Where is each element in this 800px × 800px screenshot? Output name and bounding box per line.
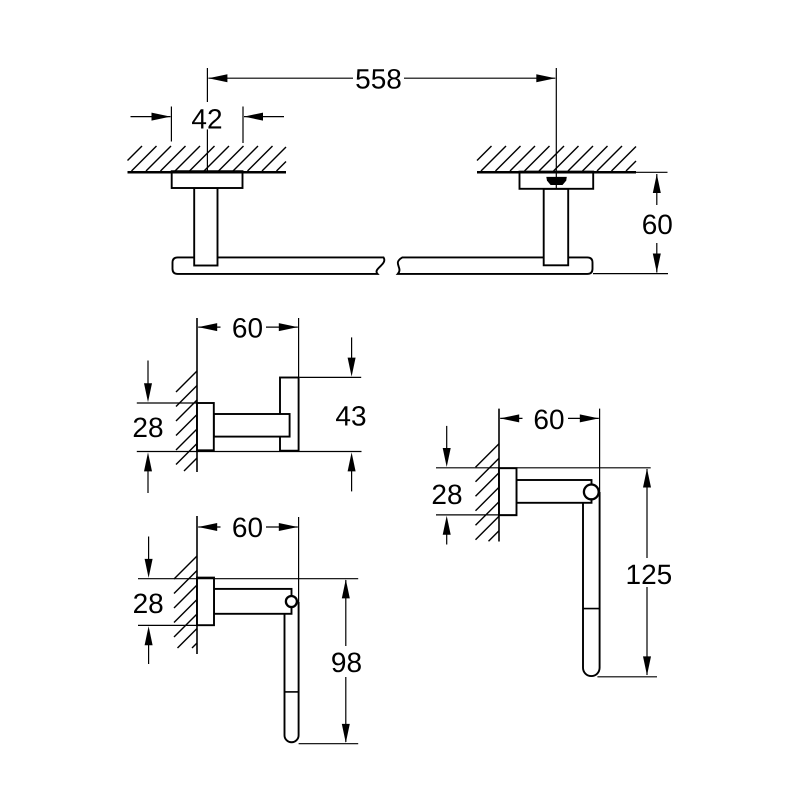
svg-text:60: 60 (533, 404, 564, 435)
dimension 42: left arrowhead (152, 113, 171, 121)
wall surface line (top-left wall) (128, 171, 287, 174)
dimension 60 (hook depth): left arrow tail (198, 326, 220, 328)
wall hatching (top-left wall section) (128, 146, 287, 171)
dimension 28 (spare plate): top arrow tail (446, 426, 448, 450)
spare holder arm (517, 480, 592, 503)
dimension 60 (mount height): wall extension line (636, 171, 668, 173)
dimension 60 (hook depth): right extension line (298, 318, 300, 377)
dimension 125: bottom arrowhead (643, 656, 651, 675)
dimension 42: right arrowhead (244, 113, 263, 121)
dimension 28 (holder plate): top arrowhead (145, 559, 153, 578)
hook vertical front plate (280, 378, 299, 451)
hook arm (214, 414, 290, 437)
svg-text:60: 60 (232, 312, 263, 343)
right wall-mount post (544, 189, 569, 265)
svg-text:43: 43 (335, 401, 366, 432)
dimension 60 (hook depth): left arrowhead (198, 323, 217, 331)
dimension 28 (holder plate): bottom extension line (138, 624, 214, 626)
svg-text:28: 28 (132, 412, 163, 443)
svg-text:60: 60 (642, 209, 673, 240)
dimension 558: dimension line right part (404, 77, 555, 79)
dimension 98: bottom arrowhead (342, 724, 350, 743)
svg-text:42: 42 (191, 104, 222, 135)
dimension 42: right extension line (242, 107, 244, 144)
wall face line (spare holder wall) (498, 409, 500, 542)
dimension 60 (spare depth): right arrowhead (580, 414, 599, 422)
dimension 60 (spare depth): right arrow tail (568, 417, 599, 419)
dimension 28 (hook plate): top extension line (137, 402, 197, 404)
dimension 125: dimension line upper part (646, 469, 648, 558)
wall hatching (hook wall) (176, 371, 197, 471)
dimension 28 (spare plate): top arrowhead (443, 448, 451, 467)
shared top extension line (28 and 98) (138, 578, 358, 580)
dimension 28 (holder plate): bottom arrow tail (148, 644, 150, 665)
dimension 125: dimension line lower part (646, 587, 648, 675)
dimension 558: right arrowhead (536, 74, 555, 82)
svg-text:558: 558 (355, 63, 402, 94)
GROHE logo mark on right plate (546, 177, 567, 185)
dimension 42: left arrow tail (131, 116, 171, 118)
dimension 43: top arrow tail (351, 337, 353, 360)
dimension 558: right extension line through wall and plate (555, 68, 557, 189)
hook wall plate (197, 403, 214, 450)
dimension 28 (spare plate): bottom extension line (436, 514, 517, 516)
svg-text:125: 125 (626, 559, 673, 590)
dimension 42: left extension line (170, 107, 172, 142)
dimension 60 (holder depth): left arrow tail (198, 526, 220, 528)
wall hatching (paper holder wall) (174, 556, 197, 648)
wall surface line (top-right wall) (477, 171, 636, 174)
dimension 60 (spare depth): left arrow tail (500, 417, 522, 419)
dimension 60 (holder depth): right extension line (298, 517, 300, 612)
svg-text:98: 98 (331, 647, 362, 678)
dimension 60 (holder depth): left arrowhead (198, 523, 217, 531)
dimension 43: bottom arrow tail (351, 468, 353, 491)
shared bottom extension line (28 and 43) (137, 451, 362, 453)
dimension 28 (hook plate): bottom arrowhead (144, 452, 152, 471)
paper holder swing bar end mark (285, 691, 299, 693)
spare holder pivot pin (584, 485, 599, 500)
wall face line (hook wall) (196, 318, 198, 472)
dimension 60 (spare depth): right extension line (599, 409, 601, 500)
paper holder pivot pin (286, 596, 297, 607)
spare holder swing bar end mark (583, 608, 600, 610)
spare holder swing bar (capsule) (583, 492, 600, 676)
dimension 28 (holder plate): top arrow tail (148, 537, 150, 561)
dimension 28 (spare plate): bottom arrowhead (443, 516, 451, 535)
left mount wall plate (172, 171, 243, 188)
dimension 28 (hook plate): top arrowhead (144, 383, 152, 402)
towel bar rail, left segment with break (173, 257, 385, 274)
dimension 60 (mount height): dimension line lower part (656, 243, 658, 273)
dimension 98: bottom extension line (299, 743, 359, 745)
dimension 42: right arrow tail (244, 116, 284, 118)
dimension 28 (spare plate): bottom arrow tail (446, 533, 448, 545)
dimension 125: bottom extension line (597, 676, 657, 678)
dimension 60 (spare depth): left arrowhead (500, 414, 519, 422)
svg-text:60: 60 (232, 512, 263, 543)
dimension 558: left extension line (below text, to wall) (206, 129, 208, 171)
dimension 28 (hook plate): bottom arrow tail (147, 469, 149, 493)
dimension 60 (hook depth): right arrow tail (266, 326, 298, 328)
dimension 60 (holder depth): right arrowhead (279, 523, 298, 531)
dimension 558: dimension line left part (208, 77, 353, 79)
left wall-mount post (194, 188, 217, 266)
right mount wall plate (520, 172, 594, 189)
towel bar rail, right segment with break (398, 257, 593, 274)
shared top extension line (28 and 125) (436, 467, 651, 469)
dimension 43: top arrowhead (348, 358, 356, 377)
paper holder arm (214, 589, 292, 614)
dimension 28 (hook plate): top arrow tail (147, 361, 149, 386)
dimension 558: left extension line (above text) (206, 68, 208, 102)
dimension 558: left arrowhead (208, 74, 227, 82)
wall hatching (spare holder wall) (476, 444, 500, 542)
dimension 60 (holder depth): right arrow tail (266, 526, 298, 528)
dimension 43: top extension line (300, 376, 362, 378)
dimension 98: top arrowhead (342, 579, 350, 598)
dimension 28 (holder plate): bottom arrowhead (145, 626, 153, 645)
dimension 60 (hook depth): right arrowhead (279, 323, 298, 331)
paper holder swing bar (capsule) (285, 602, 299, 742)
dimension 60 (mount height): bar extension line (593, 273, 668, 275)
dimension 60 (mount height): upper arrowhead (653, 174, 661, 193)
dimension 43: bottom arrowhead (348, 452, 356, 471)
dimension 98: dimension line upper part (345, 580, 347, 646)
spare holder wall plate (499, 468, 517, 515)
svg-text:28: 28 (431, 479, 462, 510)
paper holder wall plate (197, 578, 214, 626)
dimension 98: dimension line lower part (345, 677, 347, 742)
svg-text:28: 28 (133, 588, 164, 619)
wall hatching (top-right wall section) (477, 146, 636, 171)
dimension 125: top arrowhead (643, 469, 651, 488)
dimension 60 (mount height): lower arrowhead (653, 254, 661, 273)
wall face line (paper holder wall) (196, 516, 198, 654)
dimension 60 (mount height): dimension line upper part (656, 174, 658, 205)
